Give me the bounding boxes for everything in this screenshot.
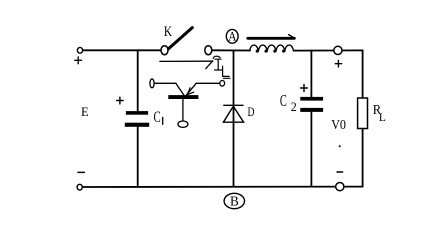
svg-text:V0: V0 [331,118,346,133]
wire C1 branch upper [137,50,139,111]
svg-text:A: A [228,29,237,44]
wire right branch (load) [362,50,364,98]
inductor current arrow [248,35,295,39]
capacitor C2 [300,97,323,112]
wire bottom [82,186,363,188]
svg-text:B: B [230,195,239,210]
svg-text:E: E [81,105,89,119]
wire top: switch K to inductor [212,49,250,51]
plus mark output [335,61,341,68]
terminal input + [77,47,82,53]
svg-text:L: L [379,110,386,124]
svg-text:C: C [280,91,287,110]
terminal output + [334,46,342,54]
switch K [161,28,212,55]
svg-text:D: D [248,104,255,119]
wire top: inductor to right corner [294,49,363,51]
diode D [223,105,243,122]
inductor L coil [250,45,294,52]
current arrow under switch [160,61,213,69]
wire C1 branch lower [137,127,139,187]
plus mark C2 [301,85,308,92]
terminal input - [77,184,82,190]
svg-text:2: 2 [291,100,297,114]
dot between V0 and minus [339,145,341,147]
svg-text:C: C [154,109,161,126]
wire top: left terminal to switch K [83,49,162,51]
label I_L (hand-drawn) [213,56,230,78]
node B [224,193,244,208]
subscript 1 of C1 [162,117,164,124]
minus mark input [78,171,84,173]
transistor Q (switch realization, open terminals) [150,79,225,128]
wire C2 branch lower [310,112,312,187]
resistor RL box [358,98,368,129]
plus mark C1 [117,97,124,104]
node A [226,29,238,43]
wire C2 branch upper [310,51,312,98]
svg-text:K: K [164,24,172,40]
minus mark output [337,171,343,173]
terminal output - [336,183,344,191]
plus mark input [75,57,82,64]
wire diode branch [233,50,235,186]
capacitor C1 [125,111,149,127]
